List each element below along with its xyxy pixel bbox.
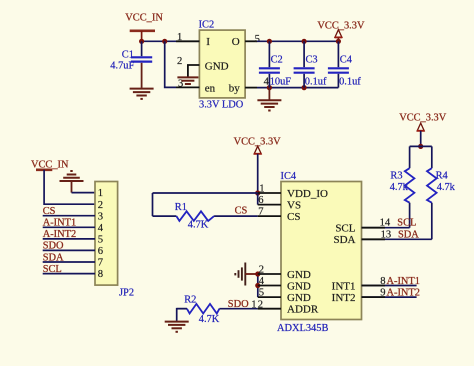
wire top to R1 branch <box>153 192 258 194</box>
svg-text:8: 8 <box>380 276 385 287</box>
svg-text:INT1: INT1 <box>332 280 356 292</box>
svg-text:4.7uF: 4.7uF <box>110 61 134 72</box>
svg-text:0.1uf: 0.1uf <box>305 76 327 87</box>
svg-text:1: 1 <box>177 32 182 43</box>
svg-text:4.7K: 4.7K <box>199 314 220 325</box>
svg-text:VDD_IO: VDD_IO <box>287 188 328 200</box>
capacitor C1 <box>110 41 152 71</box>
svg-text:SCL: SCL <box>397 218 416 229</box>
svg-text:SDA: SDA <box>43 252 64 263</box>
svg-text:6: 6 <box>98 246 103 257</box>
wire output rail <box>257 40 338 42</box>
svg-text:0.1uf: 0.1uf <box>339 76 361 87</box>
wire net CS to JP2 pin3 <box>43 215 95 217</box>
wire R2 to ground <box>177 309 187 321</box>
svg-text:6: 6 <box>258 195 263 206</box>
junction <box>267 85 272 90</box>
wire net A-INT1 to JP2 pin4 <box>43 226 95 228</box>
svg-text:CS: CS <box>43 206 56 217</box>
wire ground rail <box>257 87 338 89</box>
svg-text:VCC_3.3V: VCC_3.3V <box>317 20 365 31</box>
pin 8 stub <box>362 285 386 287</box>
wire SCL (pin 14) <box>362 227 410 229</box>
svg-text:13: 13 <box>381 229 392 240</box>
svg-text:R3: R3 <box>390 171 402 182</box>
wire VCC_IN to JP2 pin2 <box>44 170 95 204</box>
wire R2 to ADDR <box>219 308 257 310</box>
ground below C1 <box>130 63 154 99</box>
junction at VDD_IO <box>255 190 260 195</box>
resistor R3 <box>390 146 415 227</box>
svg-text:R1: R1 <box>175 202 187 213</box>
pin 5 stub <box>258 296 281 298</box>
svg-text:VCC_IN: VCC_IN <box>125 13 163 24</box>
svg-text:C3: C3 <box>306 55 318 66</box>
pin 2 wire IC2 <box>188 65 200 77</box>
svg-text:R4: R4 <box>436 171 449 182</box>
power port VCC_IN (JP2) <box>31 159 69 170</box>
svg-text:5: 5 <box>98 234 103 245</box>
svg-text:1: 1 <box>98 188 103 199</box>
svg-text:ADDR: ADDR <box>287 304 319 316</box>
pin 12 stub <box>258 308 281 310</box>
power port VCC_IN (top) <box>125 13 163 42</box>
svg-text:5: 5 <box>255 34 260 45</box>
wire INT1 (pin 8) <box>362 285 417 287</box>
ground (inverted) at JP2 pin1 <box>60 171 84 193</box>
pin 3 stub IC2 <box>176 86 199 88</box>
ground at IC2 pin2 <box>177 77 198 84</box>
svg-text:2: 2 <box>177 56 182 67</box>
svg-text:SDA: SDA <box>333 234 355 246</box>
svg-text:4.7k: 4.7k <box>390 182 409 193</box>
svg-text:en: en <box>205 82 216 94</box>
ground (sideways) at GND pins <box>235 263 257 286</box>
regulator U IC2 <box>199 20 245 111</box>
svg-text:SDO: SDO <box>228 299 249 310</box>
svg-text:2: 2 <box>98 200 103 211</box>
svg-text:INT2: INT2 <box>332 292 356 304</box>
pin 13 stub <box>362 238 386 240</box>
pin 14 stub <box>362 227 386 229</box>
svg-text:CS: CS <box>287 211 300 223</box>
power port VCC_3.3V (top) <box>317 20 365 41</box>
svg-text:7: 7 <box>258 207 263 218</box>
connector JP2 <box>95 182 134 299</box>
wire SDA (pin 13) <box>362 238 432 240</box>
wire VCC_IN to IC2 pin1 <box>142 40 176 42</box>
wire gnd tie 2-4-5 <box>257 274 259 297</box>
svg-text:1: 1 <box>259 184 264 195</box>
wire branch down <box>152 193 154 216</box>
svg-text:SCL: SCL <box>335 223 355 235</box>
svg-text:5: 5 <box>259 288 264 299</box>
svg-text:VCC_3.3V: VCC_3.3V <box>399 113 447 124</box>
pin 4 stub IC2 (by) <box>245 87 257 89</box>
pin 6 stub <box>258 204 281 206</box>
svg-text:8: 8 <box>98 269 103 280</box>
capacitor C2 <box>259 41 291 87</box>
svg-text:I: I <box>206 36 210 48</box>
svg-text:CS: CS <box>235 206 248 217</box>
junction <box>139 39 144 44</box>
wire net A-INT2 to JP2 pin5 <box>43 238 95 240</box>
svg-text:ADXL345B: ADXL345B <box>277 323 328 334</box>
svg-text:3: 3 <box>98 211 103 222</box>
pin 5 stub IC2 <box>245 40 257 42</box>
wire net SCL to JP2 pin8 <box>43 273 95 275</box>
svg-text:VS: VS <box>287 199 301 211</box>
wire splitter <box>410 145 432 147</box>
svg-text:GND: GND <box>205 60 229 72</box>
svg-text:4: 4 <box>259 276 265 287</box>
svg-text:12: 12 <box>251 300 264 311</box>
wire en tie to input <box>165 41 176 87</box>
svg-text:C4: C4 <box>340 55 353 66</box>
svg-text:GND: GND <box>287 280 311 292</box>
svg-text:GND: GND <box>287 292 311 304</box>
resistor R2 <box>177 295 220 325</box>
junction <box>267 39 272 44</box>
svg-text:9: 9 <box>380 288 385 299</box>
svg-text:A-INT1: A-INT1 <box>387 276 420 287</box>
svg-text:10uF: 10uF <box>270 76 292 87</box>
power port VCC_3.3V (right) <box>399 113 447 147</box>
ground below C2 <box>257 88 281 111</box>
IC4 ADXL345B <box>277 171 362 334</box>
svg-text:O: O <box>232 36 240 48</box>
svg-text:SCL: SCL <box>43 264 62 275</box>
junction <box>302 39 307 44</box>
pin 7 stub <box>258 215 281 217</box>
pin 9 stub <box>362 296 386 298</box>
wire net SDA to JP2 pin7 <box>43 261 95 263</box>
wire gnd to JP2 pin1 <box>72 192 96 194</box>
svg-text:A-INT2: A-INT2 <box>387 288 420 299</box>
capacitor C4 <box>328 41 361 87</box>
svg-text:4.7k: 4.7k <box>437 182 456 193</box>
svg-text:by: by <box>229 82 241 94</box>
svg-text:IC4: IC4 <box>281 171 297 182</box>
resistor R4 <box>427 146 456 239</box>
pin 2 stub <box>258 273 281 275</box>
svg-text:R2: R2 <box>184 295 196 306</box>
svg-text:IC2: IC2 <box>199 20 215 31</box>
svg-text:SDA: SDA <box>398 229 419 240</box>
svg-text:C2: C2 <box>271 55 283 66</box>
svg-text:GND: GND <box>287 269 311 281</box>
junction <box>255 283 260 288</box>
resistor R1 <box>153 202 258 231</box>
svg-text:SDO: SDO <box>43 241 64 252</box>
ground below R2 <box>165 322 189 332</box>
svg-text:2: 2 <box>259 265 264 276</box>
wire VDD to VS <box>257 193 259 205</box>
capacitor C3 <box>294 41 327 87</box>
junction <box>302 85 307 90</box>
svg-text:A-INT2: A-INT2 <box>43 229 76 240</box>
junction <box>162 39 167 44</box>
svg-text:A-INT1: A-INT1 <box>43 218 76 229</box>
wire net SDO to JP2 pin6 <box>43 249 95 251</box>
svg-text:14: 14 <box>380 218 391 229</box>
svg-text:4.7K: 4.7K <box>188 220 209 231</box>
svg-text:4: 4 <box>98 223 104 234</box>
svg-text:7: 7 <box>98 258 103 269</box>
pin 1 stub IC2 <box>176 40 199 42</box>
svg-text:3.3V LDO: 3.3V LDO <box>199 100 244 111</box>
pin 4 stub <box>258 285 281 287</box>
wire INT2 (pin 9) <box>362 296 417 298</box>
pin 1 stub <box>258 192 281 194</box>
junction <box>255 271 260 276</box>
svg-text:C1: C1 <box>122 50 134 61</box>
junction <box>418 144 423 149</box>
power port VCC_3.3V (middle) <box>234 137 282 194</box>
svg-text:JP2: JP2 <box>119 288 134 299</box>
junction <box>336 39 341 44</box>
